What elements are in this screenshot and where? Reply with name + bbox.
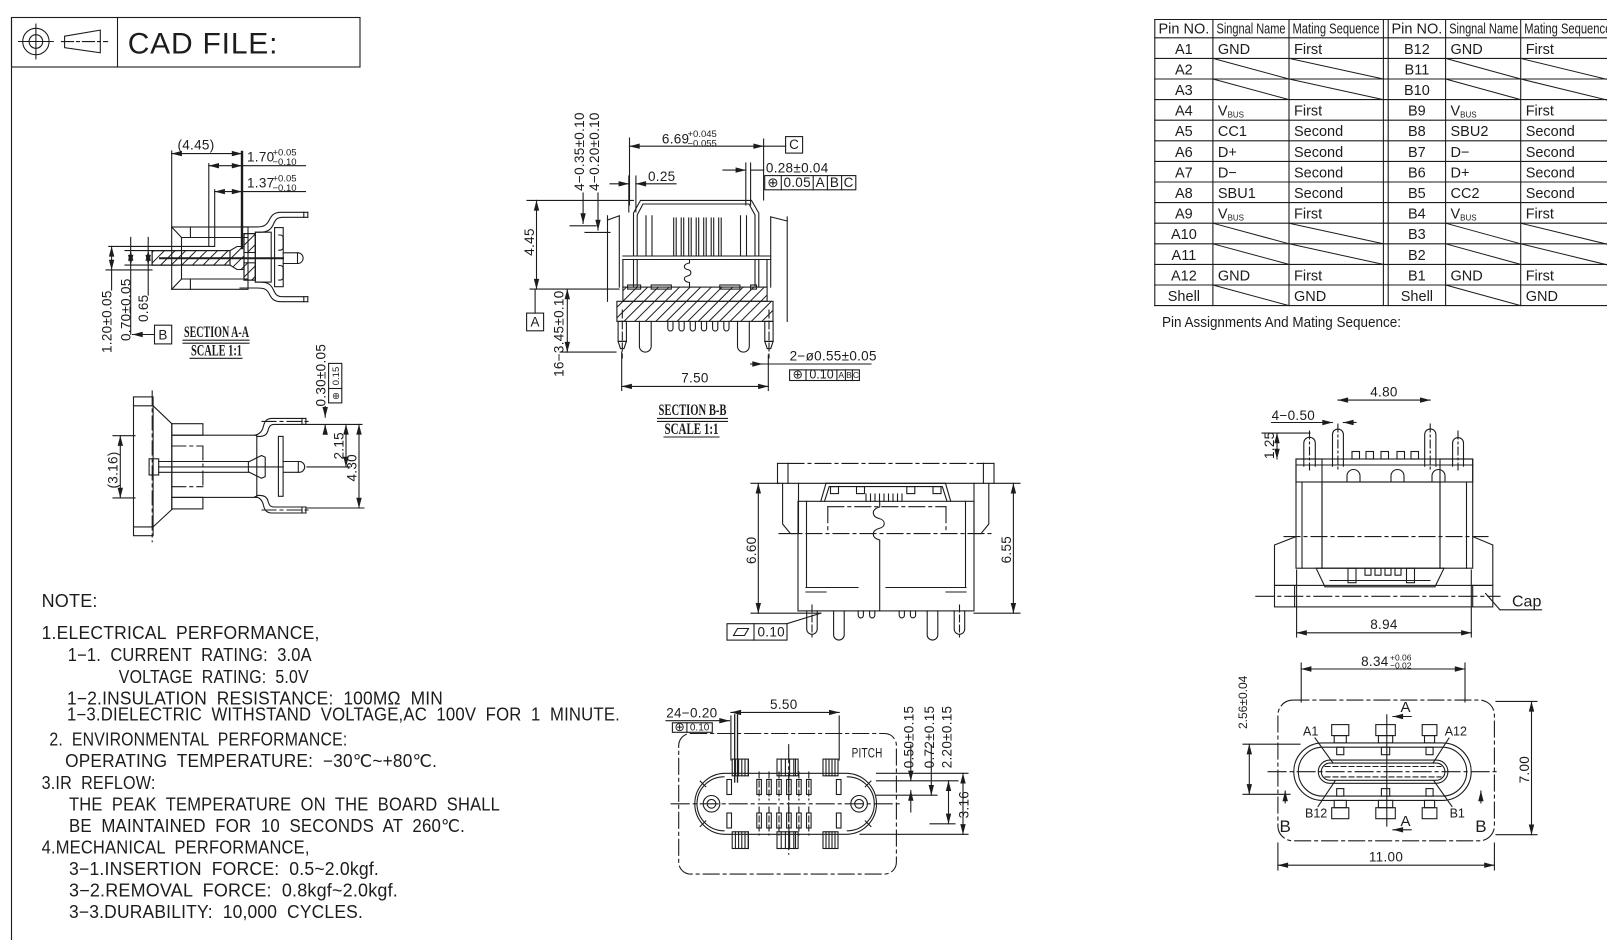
- svg-text:B8: B8: [1408, 124, 1426, 140]
- svg-text:A8: A8: [1175, 186, 1193, 202]
- right through pin: [283, 462, 305, 473]
- svg-text:1−1. CURRENT RATING: 3.0A: 1−1. CURRENT RATING: 3.0A: [68, 645, 312, 665]
- left solder leg: [639, 321, 651, 352]
- dim 6.69: [630, 129, 786, 205]
- svg-text:OPERATING TEMPERATURE: −30℃~+8: OPERATING TEMPERATURE: −30℃~+80℃.: [65, 751, 437, 771]
- svg-text:GND: GND: [1294, 289, 1326, 305]
- svg-text:A: A: [530, 315, 539, 330]
- section arrow B right: [1475, 791, 1486, 836]
- rosette right: [851, 796, 868, 813]
- center through pin: [283, 253, 303, 264]
- dim (3.16): [106, 436, 136, 498]
- svg-text:First: First: [1526, 207, 1554, 223]
- section arrow B left: [1280, 791, 1291, 836]
- shell dome inner: [637, 204, 755, 256]
- contact funnel: [248, 456, 265, 479]
- svg-text:Second: Second: [1526, 124, 1575, 140]
- nose trapezoid: [1316, 568, 1444, 587]
- svg-text:D−: D−: [1451, 145, 1470, 161]
- pin centerlines: [759, 772, 809, 835]
- top plate: [1296, 459, 1473, 482]
- svg-text:⊕: ⊕: [331, 392, 342, 400]
- svg-text:B12: B12: [1404, 42, 1430, 58]
- dim 1.37: [215, 174, 306, 247]
- svg-text:First: First: [1294, 42, 1322, 58]
- svg-text:PITCH: PITCH: [852, 746, 883, 761]
- bracket edge: [806, 587, 858, 589]
- cap wing right: [1473, 537, 1493, 586]
- pin 4: [1453, 438, 1464, 467]
- svg-text:6.69: 6.69: [662, 132, 689, 147]
- svg-text:First: First: [1526, 268, 1554, 284]
- svg-text:B11: B11: [1405, 62, 1430, 78]
- svg-text:A1: A1: [1303, 725, 1318, 739]
- svg-text:0.65: 0.65: [136, 295, 151, 322]
- svg-text:CAD FILE:: CAD FILE:: [128, 28, 279, 61]
- svg-text:A9: A9: [1175, 207, 1193, 223]
- datum A box: [527, 289, 544, 331]
- svg-text:0.50±0.15: 0.50±0.15: [902, 706, 917, 769]
- svg-text:0.10: 0.10: [690, 723, 710, 734]
- dim 7.00: [1496, 701, 1537, 834]
- svg-text:4.45: 4.45: [522, 228, 537, 255]
- svg-text:VBUS: VBUS: [1451, 207, 1477, 223]
- dim 4-0.50: [1272, 408, 1356, 423]
- PCB phantom outline: [679, 734, 897, 875]
- svg-text:Singnal Name: Singnal Name: [1449, 22, 1518, 38]
- phantom rect: [828, 507, 946, 533]
- shell stadium: [1294, 743, 1471, 801]
- svg-text:B9: B9: [1408, 104, 1426, 120]
- svg-text:Second: Second: [1526, 165, 1575, 181]
- svg-text:A6: A6: [1175, 145, 1193, 161]
- foot leg left: [834, 611, 845, 640]
- dim 4.80: [1338, 384, 1430, 400]
- stadium outline: [695, 773, 877, 834]
- svg-text:Mating Sequence: Mating Sequence: [1524, 22, 1607, 38]
- dim 1.20 left: [99, 246, 214, 353]
- dim 4.30: [307, 424, 364, 508]
- center lines: [671, 803, 902, 805]
- dim 0.65 left: [136, 237, 151, 322]
- svg-text:1.37: 1.37: [247, 176, 274, 191]
- svg-text:8.94: 8.94: [1370, 617, 1398, 632]
- cap top band: [778, 463, 995, 483]
- svg-text:Second: Second: [1294, 186, 1343, 202]
- table header text: [1159, 22, 1607, 38]
- svg-text:2.56±0.04: 2.56±0.04: [1236, 675, 1250, 729]
- svg-text:4−0.20±0.10: 4−0.20±0.10: [587, 112, 602, 191]
- dim 4-0.35 rotated: [570, 112, 596, 226]
- tongue (hatched): [152, 247, 244, 270]
- top pads: [1332, 725, 1437, 743]
- body outer shell: [172, 227, 248, 289]
- left through pin: [618, 310, 626, 358]
- pin 2: [1333, 429, 1344, 466]
- svg-text:0.72±0.15: 0.72±0.15: [922, 706, 937, 769]
- svg-text:Mating Sequence: Mating Sequence: [1293, 22, 1380, 38]
- center contact pin: [160, 257, 283, 259]
- retention hook upper: [279, 235, 283, 250]
- svg-text:A11: A11: [1172, 248, 1197, 264]
- tongue: [1318, 760, 1448, 783]
- svg-text:Pin Assignments And Mating Seq: Pin Assignments And Mating Sequence:: [1162, 314, 1401, 331]
- svg-text:First: First: [1526, 104, 1554, 120]
- dim 0.30 with position frame (rotated): [314, 344, 343, 429]
- dim 5.50: [731, 697, 839, 760]
- mid band walls: [633, 260, 635, 288]
- highlighted pad lines: [734, 715, 736, 782]
- center S-break: [873, 501, 884, 611]
- contact teeth: [866, 494, 902, 501]
- svg-text:Second: Second: [1294, 124, 1343, 140]
- arc tick marks: [700, 781, 706, 787]
- dim 0.28: [723, 161, 829, 206]
- svg-text:A12: A12: [1171, 268, 1197, 284]
- svg-text:SCALE 1:1: SCALE 1:1: [191, 343, 242, 360]
- small contact legs: [668, 321, 673, 331]
- svg-text:4−0.35±0.10: 4−0.35±0.10: [572, 112, 587, 191]
- svg-text:0.15: 0.15: [331, 367, 342, 386]
- pin labels: [1303, 725, 1467, 821]
- dim 2.15: [302, 424, 362, 467]
- svg-text:1−3.DIELECTRIC WITHSTAND VOLTA: 1−3.DIELECTRIC WITHSTAND VOLTAGE,AC 100V…: [67, 705, 620, 725]
- main body: [798, 501, 974, 611]
- svg-text:0.10: 0.10: [809, 368, 833, 382]
- cap flap left: [783, 483, 799, 533]
- svg-text:−0.055: −0.055: [688, 138, 717, 149]
- svg-text:A2: A2: [1175, 62, 1193, 78]
- svg-text:A1: A1: [1175, 42, 1193, 58]
- cap phantom line: [779, 533, 992, 535]
- svg-text:CC2: CC2: [1451, 186, 1480, 202]
- dim 6.60: [744, 483, 821, 613]
- dim 0.72: [930, 745, 932, 795]
- svg-text:3.IR REFLOW:: 3.IR REFLOW:: [42, 773, 156, 793]
- svg-text:SECTION B-B: SECTION B-B: [659, 402, 727, 419]
- hatched base lower: [617, 301, 773, 321]
- svg-text:B6: B6: [1408, 165, 1426, 181]
- svg-text:3−3.DURABILITY: 10,000 CYCLES.: 3−3.DURABILITY: 10,000 CYCLES.: [69, 902, 363, 922]
- svg-text:A: A: [838, 370, 844, 380]
- section arrow A bottom: [1393, 813, 1411, 830]
- svg-text:B: B: [846, 370, 852, 380]
- table blank-cell diagonals: [1213, 58, 1607, 305]
- dim 4.45 rotated: [522, 200, 634, 289]
- svg-text:0.25: 0.25: [648, 169, 675, 184]
- svg-text:GND: GND: [1451, 268, 1483, 284]
- flatness frame: [727, 613, 821, 640]
- dim 2.56: [1236, 675, 1300, 794]
- svg-text:C: C: [789, 137, 799, 152]
- svg-text:4.MECHANICAL PERFORMANCE,: 4.MECHANICAL PERFORMANCE,: [42, 838, 310, 858]
- position frame 0.10: [672, 720, 712, 734]
- svg-text:0.30±0.05: 0.30±0.05: [314, 344, 329, 407]
- third-angle projection symbol: cone: [65, 30, 101, 53]
- svg-text:0.10: 0.10: [758, 624, 785, 639]
- svg-text:Shell: Shell: [1168, 289, 1200, 305]
- right side plate: [770, 217, 772, 287]
- center lines: [1268, 771, 1499, 773]
- svg-text:VBUS: VBUS: [1451, 104, 1477, 120]
- dim 3.16: [962, 773, 964, 834]
- title block frame: [12, 18, 361, 68]
- svg-text:5.50: 5.50: [770, 697, 797, 712]
- svg-text:3.16: 3.16: [957, 791, 972, 818]
- svg-text:2. ENVIRONMENTAL PERFORMANCE:: 2. ENVIRONMENTAL PERFORMANCE:: [49, 730, 347, 750]
- table grid: [1155, 20, 1607, 306]
- svg-text:First: First: [1294, 104, 1322, 120]
- svg-text:11.00: 11.00: [1369, 850, 1403, 865]
- right dims: [860, 706, 972, 835]
- rear plate: [275, 228, 284, 287]
- svg-text:1.20±0.05: 1.20±0.05: [99, 290, 114, 353]
- shell dome outer: [634, 200, 759, 256]
- position frame 0.05 ABC: [765, 175, 856, 190]
- foot leg right: [927, 611, 938, 640]
- svg-text:A3: A3: [1175, 83, 1193, 99]
- svg-text:Pin NO.: Pin NO.: [1159, 22, 1210, 38]
- bottom mount pads: [732, 832, 838, 849]
- svg-text:GND: GND: [1526, 289, 1558, 305]
- top mounting leg: [240, 212, 308, 227]
- pin 3: [1425, 429, 1436, 466]
- retention hook lower: [279, 266, 283, 281]
- svg-text:A: A: [1401, 699, 1411, 716]
- svg-text:2.20±0.15: 2.20±0.15: [939, 706, 954, 769]
- svg-text:8.34: 8.34: [1361, 654, 1389, 669]
- hatched base upper: [623, 287, 767, 301]
- pin assignment table: [1155, 20, 1607, 332]
- svg-text:−0.02: −0.02: [1390, 661, 1412, 671]
- svg-text:B: B: [1475, 817, 1486, 836]
- svg-text:4−0.50: 4−0.50: [1272, 408, 1315, 423]
- svg-text:A: A: [1401, 813, 1411, 830]
- latch notches: [831, 487, 839, 494]
- svg-text:Shell: Shell: [1401, 289, 1433, 305]
- dim 2-dia0.55: [751, 349, 877, 365]
- svg-text:First: First: [1294, 268, 1322, 284]
- svg-text:GND: GND: [1218, 268, 1250, 284]
- svg-text:B: B: [830, 175, 839, 190]
- center contact: [149, 459, 159, 475]
- dim 0.25: [610, 169, 676, 212]
- position frame 0.10 ABC: [790, 368, 860, 382]
- pin 1: [1304, 437, 1316, 466]
- right through pin: [765, 310, 773, 358]
- center latch S-break: [684, 260, 691, 288]
- svg-text:VBUS: VBUS: [1218, 207, 1244, 223]
- foot pin left: [807, 611, 818, 634]
- svg-text:6.60: 6.60: [744, 537, 759, 564]
- dim 0.50: [910, 745, 912, 781]
- cap flap right: [974, 483, 989, 533]
- SECTION B-B title: [658, 402, 728, 438]
- dim 8.34: [1301, 653, 1465, 703]
- svg-text:BE MAINTAINED FOR 10 SECONDS A: BE MAINTAINED FOR 10 SECONDS AT 260℃.: [69, 816, 465, 836]
- svg-text:16−3.45±0.10: 16−3.45±0.10: [552, 290, 567, 376]
- svg-text:(4.45): (4.45): [177, 138, 214, 153]
- body: [172, 435, 257, 497]
- top leg: [255, 418, 306, 435]
- right solder leg: [738, 321, 750, 352]
- svg-text:C: C: [853, 370, 859, 380]
- svg-text:2−ø0.55±0.05: 2−ø0.55±0.05: [790, 349, 877, 364]
- svg-text:GND: GND: [1451, 42, 1483, 58]
- third-angle projection symbol: target circle: [23, 28, 49, 54]
- dim 8.94: [1297, 570, 1472, 637]
- svg-text:−0.10: −0.10: [273, 183, 297, 194]
- dim 6.55: [974, 483, 1020, 613]
- svg-text:1.25: 1.25: [1262, 432, 1277, 459]
- svg-text:Pin NO.: Pin NO.: [1392, 22, 1443, 38]
- svg-text:B: B: [158, 328, 167, 343]
- top mount pads: [732, 759, 838, 776]
- svg-text:3−1.INSERTION FORCE: 0.5~2.0kg: 3−1.INSERTION FORCE: 0.5~2.0kgf.: [69, 859, 379, 879]
- svg-text:VOLTAGE RATING: 5.0V: VOLTAGE RATING: 5.0V: [119, 667, 309, 687]
- svg-text:D−: D−: [1218, 165, 1237, 181]
- dim 4-0.20 rotated: [585, 112, 610, 232]
- svg-text:A7: A7: [1175, 165, 1193, 181]
- svg-text:⊕: ⊕: [674, 720, 684, 734]
- bottom pads: [1332, 800, 1437, 818]
- inner tabs bottom: [1337, 789, 1344, 797]
- svg-text:7.50: 7.50: [681, 371, 708, 386]
- svg-text:B1: B1: [1408, 268, 1426, 284]
- cap phantom outline: [1278, 700, 1495, 841]
- dim 1.70: [209, 148, 306, 247]
- small feet: [858, 611, 863, 618]
- svg-text:B4: B4: [1408, 207, 1426, 223]
- SECTION A-A title: [183, 324, 250, 360]
- Cap label: [1486, 594, 1542, 611]
- svg-text:0.70±0.05: 0.70±0.05: [118, 278, 133, 341]
- SMT pin pads bottom row: [727, 813, 841, 828]
- svg-text:CC1: CC1: [1218, 124, 1247, 140]
- svg-text:B10: B10: [1404, 83, 1430, 99]
- svg-text:A5: A5: [1175, 124, 1193, 140]
- svg-text:VBUS: VBUS: [1218, 104, 1244, 120]
- dim 7.50: [622, 352, 769, 391]
- cap wing left: [1275, 537, 1297, 586]
- svg-text:4.80: 4.80: [1370, 384, 1397, 399]
- pin label leaders: [1315, 738, 1333, 763]
- svg-text:0.28±0.04: 0.28±0.04: [766, 161, 829, 176]
- inner phantom lines: [172, 446, 203, 487]
- nose teeth: [1365, 568, 1401, 575]
- cap chamfers: [153, 406, 172, 424]
- svg-text:⊕: ⊕: [793, 368, 803, 382]
- svg-text:1.ELECTRICAL PERFORMANCE,: 1.ELECTRICAL PERFORMANCE,: [42, 623, 320, 643]
- svg-text:(3.16): (3.16): [106, 451, 121, 488]
- cap centerline: [151, 391, 153, 542]
- interface block: [255, 232, 271, 282]
- svg-text:D+: D+: [1451, 165, 1470, 181]
- cap plate: [134, 397, 154, 536]
- svg-text:B: B: [1280, 817, 1291, 836]
- seal wing (hatched): [244, 234, 255, 281]
- svg-text:4.30: 4.30: [345, 454, 360, 481]
- svg-text:First: First: [1526, 42, 1554, 58]
- right column: [1440, 459, 1473, 568]
- contact fingers: [646, 216, 747, 256]
- shell dome trapezoid: [821, 483, 951, 501]
- svg-text:1.70: 1.70: [247, 150, 274, 165]
- SMT pin pads top row: [727, 780, 841, 795]
- table body text: [1168, 42, 1433, 305]
- dim 2.20: [948, 781, 950, 824]
- svg-text:Second: Second: [1294, 145, 1343, 161]
- svg-text:NOTE:: NOTE:: [42, 591, 98, 611]
- svg-text:SBU2: SBU2: [1451, 124, 1489, 140]
- svg-text:B2: B2: [1408, 248, 1426, 264]
- svg-text:Second: Second: [1526, 145, 1575, 161]
- dim 16-3.45 rotated: [552, 289, 616, 377]
- svg-text:7.00: 7.00: [1517, 756, 1532, 783]
- svg-text:Cap: Cap: [1512, 594, 1541, 611]
- dim 0.70 left: [118, 237, 176, 341]
- svg-text:6.55: 6.55: [999, 536, 1014, 563]
- rear plate: [278, 436, 283, 496]
- svg-text:SCALE 1:1: SCALE 1:1: [665, 421, 719, 438]
- svg-text:B12: B12: [1305, 807, 1327, 821]
- mid body: [1322, 482, 1440, 568]
- svg-text:A: A: [816, 175, 825, 190]
- svg-text:B7: B7: [1408, 145, 1426, 161]
- svg-text:D+: D+: [1218, 145, 1237, 161]
- svg-text:⊕: ⊕: [767, 175, 779, 190]
- bottom boss: [172, 497, 203, 509]
- inner end arcs: [697, 777, 724, 831]
- svg-text:Second: Second: [1294, 165, 1343, 181]
- svg-text:GND: GND: [1218, 42, 1250, 58]
- foot pin right: [954, 611, 965, 634]
- bottom mounting leg: [240, 288, 308, 302]
- inner tabs top: [1337, 747, 1344, 755]
- cap bottom band: [1275, 585, 1493, 607]
- svg-text:B1: B1: [1450, 807, 1465, 821]
- svg-text:24−0.20: 24−0.20: [666, 706, 717, 721]
- svg-text:First: First: [1294, 207, 1322, 223]
- dim 11.00: [1278, 843, 1495, 870]
- page left border: [11, 18, 13, 940]
- rosette left: [703, 796, 720, 813]
- left side plate: [607, 216, 609, 301]
- svg-text:C: C: [844, 175, 854, 190]
- datum B: [133, 325, 172, 344]
- left column: [1296, 459, 1322, 568]
- svg-text:SBU1: SBU1: [1218, 186, 1256, 202]
- dim (4.45): [172, 138, 242, 249]
- plate scallops: [1347, 470, 1360, 482]
- svg-text:THE PEAK TEMPERATURE ON THE BO: THE PEAK TEMPERATURE ON THE BOARD SHALL: [69, 795, 500, 815]
- dim 1.25: [1262, 432, 1310, 459]
- contact feet pads: [628, 285, 641, 289]
- svg-text:B5: B5: [1408, 186, 1426, 202]
- datum C box: [786, 137, 803, 154]
- svg-text:A4: A4: [1175, 104, 1193, 120]
- svg-text:3−2.REMOVAL FORCE: 0.8kgf~2.0k: 3−2.REMOVAL FORCE: 0.8kgf~2.0kgf.: [69, 881, 398, 901]
- svg-text:−0.10: −0.10: [273, 157, 297, 168]
- svg-text:A10: A10: [1171, 227, 1197, 243]
- plate bumps: [1352, 452, 1360, 460]
- svg-text:Second: Second: [1526, 186, 1575, 202]
- svg-text:0.05: 0.05: [783, 175, 810, 190]
- section arrow A top: [1393, 699, 1411, 717]
- svg-text:SECTION A-A: SECTION A-A: [184, 324, 250, 341]
- dome base band: [623, 255, 771, 257]
- top boss: [172, 424, 203, 436]
